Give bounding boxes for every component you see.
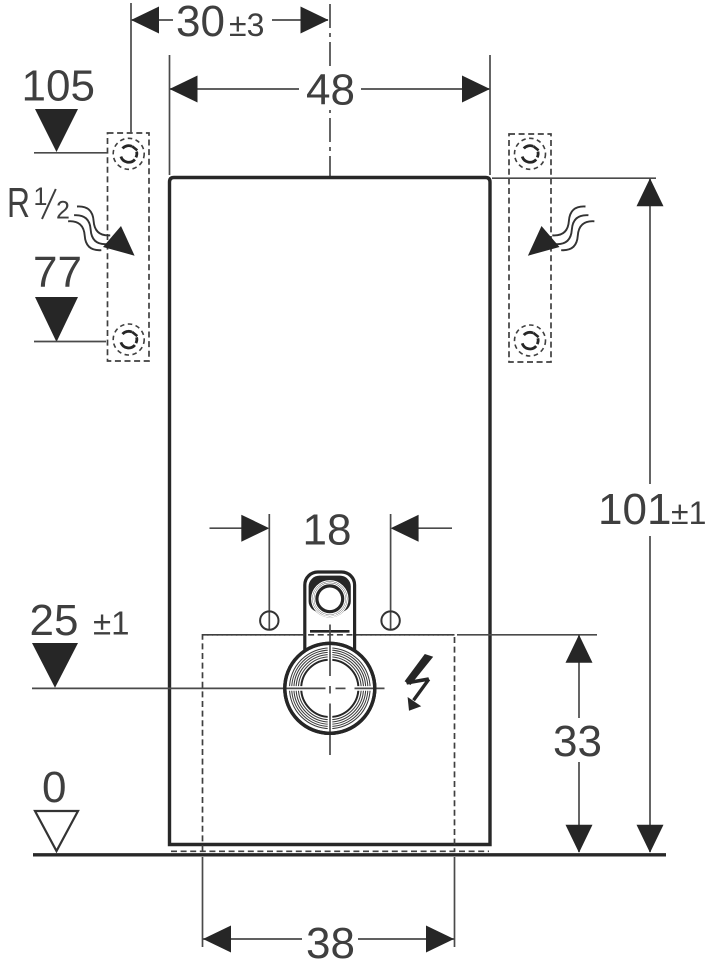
svg-text:30: 30 bbox=[176, 0, 225, 46]
extension line 18 right bbox=[390, 514, 392, 630]
anchor screw, bottom left bbox=[113, 324, 144, 355]
label 101±1 bbox=[592, 484, 712, 536]
dimension 30±3 line bbox=[131, 19, 328, 21]
svg-text:48: 48 bbox=[306, 66, 355, 115]
dimension 18 right arrow bbox=[391, 515, 419, 542]
svg-text:33: 33 bbox=[553, 717, 602, 766]
fixing hole right bbox=[381, 611, 399, 629]
water supply squiggle arrow, right (mirrored) bbox=[528, 202, 600, 255]
dimension 30±3 right arrow bbox=[301, 7, 329, 34]
crosshair halos bbox=[286, 647, 373, 731]
dimension 18 right line bbox=[415, 527, 452, 529]
dimension 33 bottom arrow bbox=[566, 825, 593, 853]
svg-text:1: 1 bbox=[34, 183, 48, 211]
svg-text:±1: ±1 bbox=[93, 605, 129, 642]
dimension 38 right arrow bbox=[426, 926, 454, 953]
dashed line over bracket (top of lower section) bbox=[203, 634, 455, 636]
dimension 38 extension line right bbox=[454, 857, 456, 947]
dimension 101±1 line bbox=[649, 178, 651, 486]
right anchor dashed box bbox=[509, 134, 551, 362]
level triangle 25 bbox=[32, 643, 78, 688]
dimension 101±1 top arrow bbox=[637, 178, 664, 206]
top line to 101 dimension bbox=[492, 177, 656, 179]
label 33 bbox=[550, 718, 608, 762]
dimension 33 line bbox=[578, 635, 580, 720]
svg-text:101: 101 bbox=[598, 485, 671, 534]
svg-text:±1: ±1 bbox=[671, 495, 706, 531]
svg-text:±3: ±3 bbox=[229, 7, 264, 43]
outer drain circle redrawn bbox=[285, 643, 375, 733]
electrical lightning bolt bbox=[405, 654, 434, 711]
anchor screw, top right bbox=[515, 138, 546, 169]
svg-text:2: 2 bbox=[56, 197, 70, 225]
dimension 48 right arrow bbox=[462, 76, 490, 103]
floor line bbox=[33, 853, 666, 856]
extension line 18 left bbox=[268, 514, 270, 630]
level line 105 bbox=[34, 152, 107, 154]
base seal dashed line bbox=[171, 850, 489, 852]
level triangle 105 bbox=[35, 109, 78, 152]
dimension 48 line bbox=[170, 88, 491, 90]
dimension 18 left line bbox=[210, 527, 246, 529]
dimension 38 line bbox=[203, 938, 455, 940]
dimension 101±1 bottom arrow bbox=[637, 825, 664, 853]
label 18 bbox=[298, 500, 360, 551]
svg-text:25: 25 bbox=[30, 596, 79, 645]
level triangle 77 bbox=[35, 297, 78, 342]
vertical crosshair of drain bbox=[329, 625, 331, 756]
dimension 18 left arrow bbox=[241, 515, 269, 542]
dimension 48 left arrow bbox=[170, 76, 198, 103]
svg-text:77: 77 bbox=[33, 248, 82, 297]
svg-text:0: 0 bbox=[42, 763, 66, 812]
left anchor dashed box bbox=[108, 133, 150, 361]
water connection bracket bbox=[305, 572, 355, 664]
extension line, 33 dimension top bbox=[457, 634, 597, 636]
dashed outline of lower module section bbox=[203, 635, 455, 851]
drain pipe circle bbox=[285, 643, 375, 733]
extension line right of 48 bbox=[489, 55, 491, 175]
centerline of module (vertical dash-dot) bbox=[329, 4, 331, 570]
svg-text:R: R bbox=[7, 179, 30, 226]
bracket base line bbox=[310, 630, 350, 633]
level line 77 bbox=[34, 341, 106, 343]
svg-text:38: 38 bbox=[306, 919, 355, 960]
label 38 bbox=[302, 919, 358, 960]
main module rectangle bbox=[170, 178, 491, 845]
level line 25 / horizontal crosshair bbox=[32, 687, 385, 689]
fixing hole left bbox=[260, 611, 278, 629]
extension line left of 48 bbox=[169, 55, 171, 175]
anchor screw, bottom right bbox=[515, 325, 546, 356]
extension line left of 30±3 bbox=[130, 3, 132, 133]
floor level open triangle bbox=[35, 811, 78, 851]
dimension 38 extension line left bbox=[202, 857, 204, 947]
svg-text:105: 105 bbox=[22, 62, 95, 111]
dimension 33 top arrow bbox=[566, 635, 593, 663]
svg-text:18: 18 bbox=[303, 506, 352, 555]
dimension 30±3 left arrow bbox=[131, 7, 159, 34]
dimension 38 left arrow bbox=[203, 926, 231, 953]
water supply squiggle arrow, left bbox=[62, 202, 134, 255]
anchor screw, top left bbox=[113, 138, 144, 169]
label R1/2 bbox=[7, 179, 70, 226]
